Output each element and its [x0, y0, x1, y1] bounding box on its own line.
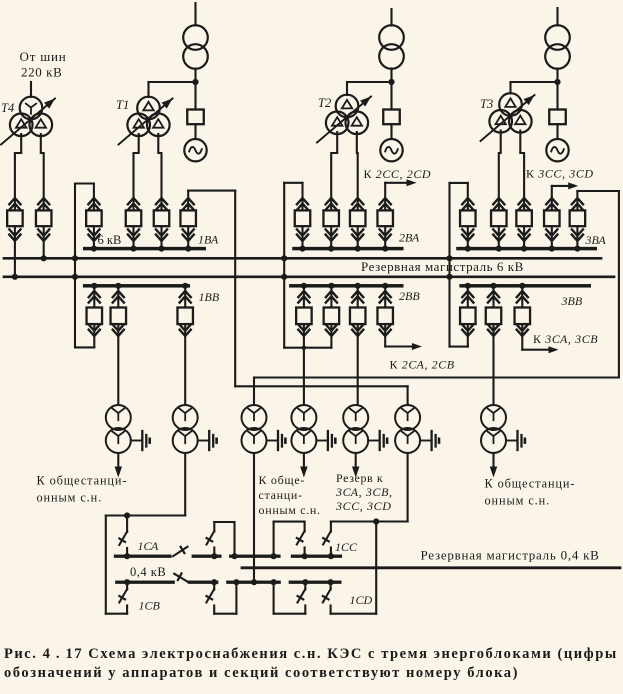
svg-text:К 2СС, 2CD: К 2СС, 2CD	[364, 167, 432, 181]
svg-text:3ВВ: 3ВВ	[561, 294, 583, 308]
svg-text:Резерв к: Резерв к	[336, 471, 383, 485]
svg-text:К общестанци-: К общестанци-	[37, 474, 128, 488]
svg-text:3СС, 3CD: 3СС, 3CD	[335, 499, 391, 513]
svg-text:К 3СА, 3СВ: К 3СА, 3СВ	[533, 332, 598, 346]
svg-text:Т4: Т4	[1, 101, 14, 115]
svg-text:К обще-: К обще-	[259, 473, 306, 487]
svg-text:3ВА: 3ВА	[585, 233, 607, 247]
svg-text:онным с.н.: онным с.н.	[485, 494, 551, 508]
svg-text:Рис. 4 . 17 Схема электроснабж: Рис. 4 . 17 Схема электроснабжения с.н. …	[4, 646, 618, 662]
svg-text:обозначений у аппаратов и секц: обозначений у аппаратов и секций соответ…	[4, 665, 519, 681]
svg-text:2ВВ: 2ВВ	[399, 289, 420, 303]
svg-text:онным с.н.: онным с.н.	[37, 491, 103, 505]
svg-text:К общестанци-: К общестанци-	[485, 477, 576, 491]
svg-text:220 кВ: 220 кВ	[21, 65, 62, 80]
svg-text:1ВВ: 1ВВ	[199, 290, 220, 304]
svg-text:1СВ: 1СВ	[139, 599, 161, 613]
svg-text:Т2: Т2	[318, 96, 331, 110]
svg-text:6 кВ: 6 кВ	[98, 233, 122, 247]
svg-text:1СА: 1СА	[138, 539, 160, 553]
svg-text:Резервная магистраль 0,4 кВ: Резервная магистраль 0,4 кВ	[421, 548, 600, 563]
svg-text:1ВА: 1ВА	[198, 233, 219, 247]
svg-text:От шин: От шин	[20, 49, 67, 64]
svg-text:К 3СС, 3CD: К 3СС, 3CD	[526, 167, 594, 181]
svg-text:онным с.н.: онным с.н.	[259, 503, 321, 517]
svg-text:0,4 кВ: 0,4 кВ	[130, 565, 166, 579]
svg-text:станци-: станци-	[259, 488, 303, 502]
svg-text:Резервная магистраль 6 кВ: Резервная магистраль 6 кВ	[361, 259, 524, 274]
svg-text:К 2СА, 2СВ: К 2СА, 2СВ	[390, 358, 455, 372]
svg-text:1СС: 1СС	[335, 540, 358, 554]
svg-text:3СА, 3СВ,: 3СА, 3СВ,	[335, 485, 393, 499]
svg-text:Т1: Т1	[116, 98, 129, 112]
svg-text:Т3: Т3	[480, 97, 493, 111]
svg-text:1CD: 1CD	[350, 593, 373, 607]
svg-text:2ВА: 2ВА	[399, 231, 420, 245]
